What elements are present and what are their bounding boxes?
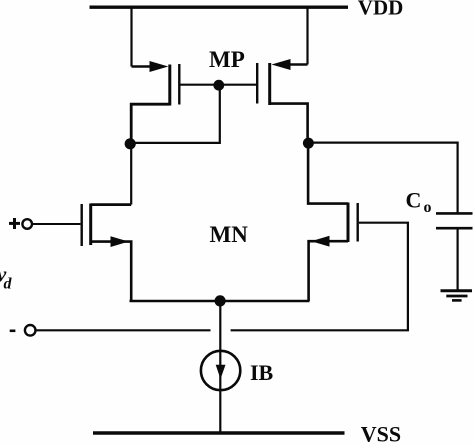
wire minus input (left segment, crossing break) <box>36 329 211 331</box>
pmos MP1 (left) <box>131 61 179 144</box>
node tail junction <box>215 295 226 306</box>
nmos MN1 (left) <box>82 204 132 302</box>
wire tail (sources bus) <box>130 300 310 303</box>
wire gate-to-drain tie (diode connection) <box>130 85 220 143</box>
svg-text:IB: IB <box>250 360 274 385</box>
capacitor Co <box>436 213 473 228</box>
svg-text:MP: MP <box>209 47 245 72</box>
plus input terminal <box>9 218 32 229</box>
svg-text:VDD: VDD <box>358 0 404 20</box>
minus input terminal <box>10 325 36 336</box>
svg-text:o: o <box>424 199 432 216</box>
label Co <box>406 188 432 217</box>
wire plus input to MN1 gate <box>32 223 80 225</box>
current source IB <box>201 351 240 390</box>
label vd <box>0 262 13 293</box>
node MP gates junction <box>213 80 224 91</box>
svg-text:MN: MN <box>210 222 249 247</box>
wire VDD to MP2 source <box>306 7 308 64</box>
svg-text:C: C <box>406 188 422 213</box>
wire output to capacitor <box>308 143 457 214</box>
node B output junction <box>303 138 314 149</box>
wire VDD to MP1 source <box>130 7 132 66</box>
VDD rail <box>90 5 349 8</box>
wire tail to VSS through IB <box>219 301 221 433</box>
node A left drain junction <box>125 138 136 149</box>
wire left drain vertical <box>130 144 132 205</box>
svg-text:d: d <box>4 276 13 293</box>
pmos MP2 (right) <box>257 59 307 143</box>
wire capacitor to ground <box>457 228 459 290</box>
ground <box>441 291 473 301</box>
wire minus input (right segment) to MN2 gate <box>231 223 408 331</box>
nmos MN2 (right) <box>308 143 358 301</box>
svg-text:VSS: VSS <box>361 422 401 444</box>
wire MP gate bus <box>181 84 257 86</box>
VSS rail <box>93 431 345 434</box>
